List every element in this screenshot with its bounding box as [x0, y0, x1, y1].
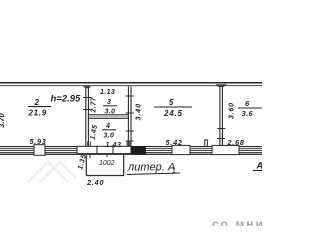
top wall inner line: [0, 84, 262, 87]
svg-text:3.60: 3.60: [227, 102, 236, 119]
right edge liter underline: [253, 170, 262, 172]
svg-text:1.13: 1.13: [100, 89, 115, 96]
liter underline: [127, 173, 180, 175]
wall B door ticks: [126, 96, 134, 141]
room 6 fraction: [238, 99, 262, 118]
window W2: [172, 145, 190, 154]
wall A door ticks: [83, 98, 91, 110]
svg-text:литер. А: литер. А: [127, 162, 175, 174]
window W1: [34, 145, 45, 156]
dimension tick pair 2: [127, 142, 130, 147]
svg-text:со мни: со мни: [212, 217, 262, 226]
svg-text:5.93: 5.93: [30, 137, 47, 146]
wall room3/room4 horizontal: [88, 115, 128, 119]
room 2 number/area fraction: [28, 98, 52, 118]
svg-text:3.0: 3.0: [104, 133, 115, 140]
svg-text:5: 5: [169, 98, 174, 107]
svg-text:5.42: 5.42: [166, 138, 183, 147]
wall C door ticks: [217, 129, 225, 139]
wall A room2/room3: [86, 86, 89, 146]
svg-text:А: А: [256, 161, 263, 171]
svg-text:3.0: 3.0: [105, 109, 116, 116]
svg-text:1.43: 1.43: [106, 142, 122, 149]
wall B room3-4/room5: [128, 86, 131, 146]
room 3 fraction: [103, 99, 117, 116]
bottom wall hatch segment 5: [239, 148, 262, 153]
svg-text:2.68: 2.68: [227, 138, 245, 147]
door opening boxes in bottom wall: [77, 146, 131, 153]
room 5 fraction: [154, 98, 192, 118]
window W3: [212, 145, 239, 154]
svg-text:4: 4: [105, 123, 110, 130]
svg-text:24.5: 24.5: [163, 109, 183, 118]
svg-text:3.70: 3.70: [0, 112, 6, 128]
bottom wall hatch segment 2: [46, 148, 78, 153]
top wall junction serif at wall A: [83, 86, 91, 88]
svg-text:h=2.95: h=2.95: [51, 94, 82, 105]
wall C room5/room6: [220, 86, 223, 146]
svg-text:21.9: 21.9: [28, 109, 47, 118]
wall room3/room4 stipple: [89, 116, 128, 118]
svg-text:1002: 1002: [99, 160, 115, 167]
svg-text:3.6: 3.6: [242, 109, 254, 118]
room 4 fraction: [102, 123, 116, 140]
porch outline: [86, 155, 123, 176]
watermark chevron faint: [28, 162, 76, 182]
bottom wall band bottom edge: [0, 154, 262, 155]
top wall junction serif at wall C: [216, 84, 228, 87]
svg-text:3.40: 3.40: [134, 103, 143, 121]
svg-text:3: 3: [107, 99, 111, 106]
svg-text:2.40: 2.40: [86, 178, 104, 187]
bottom wall hatch segment 4: [190, 148, 212, 153]
bottom wall hatch segment 3: [146, 148, 172, 153]
porch wall ticks below band: [90, 155, 107, 158]
bottom wall solid black segment: [132, 146, 147, 155]
svg-text:2: 2: [34, 98, 40, 107]
svg-text:2.77: 2.77: [91, 96, 98, 113]
bottom wall band top edge: [0, 146, 262, 147]
bottom wall hatch segment 1: [0, 148, 34, 153]
dimension tick pair 3: [204, 140, 208, 147]
dimension tick pair 1: [88, 142, 91, 147]
top wall outer line: [0, 82, 262, 84]
